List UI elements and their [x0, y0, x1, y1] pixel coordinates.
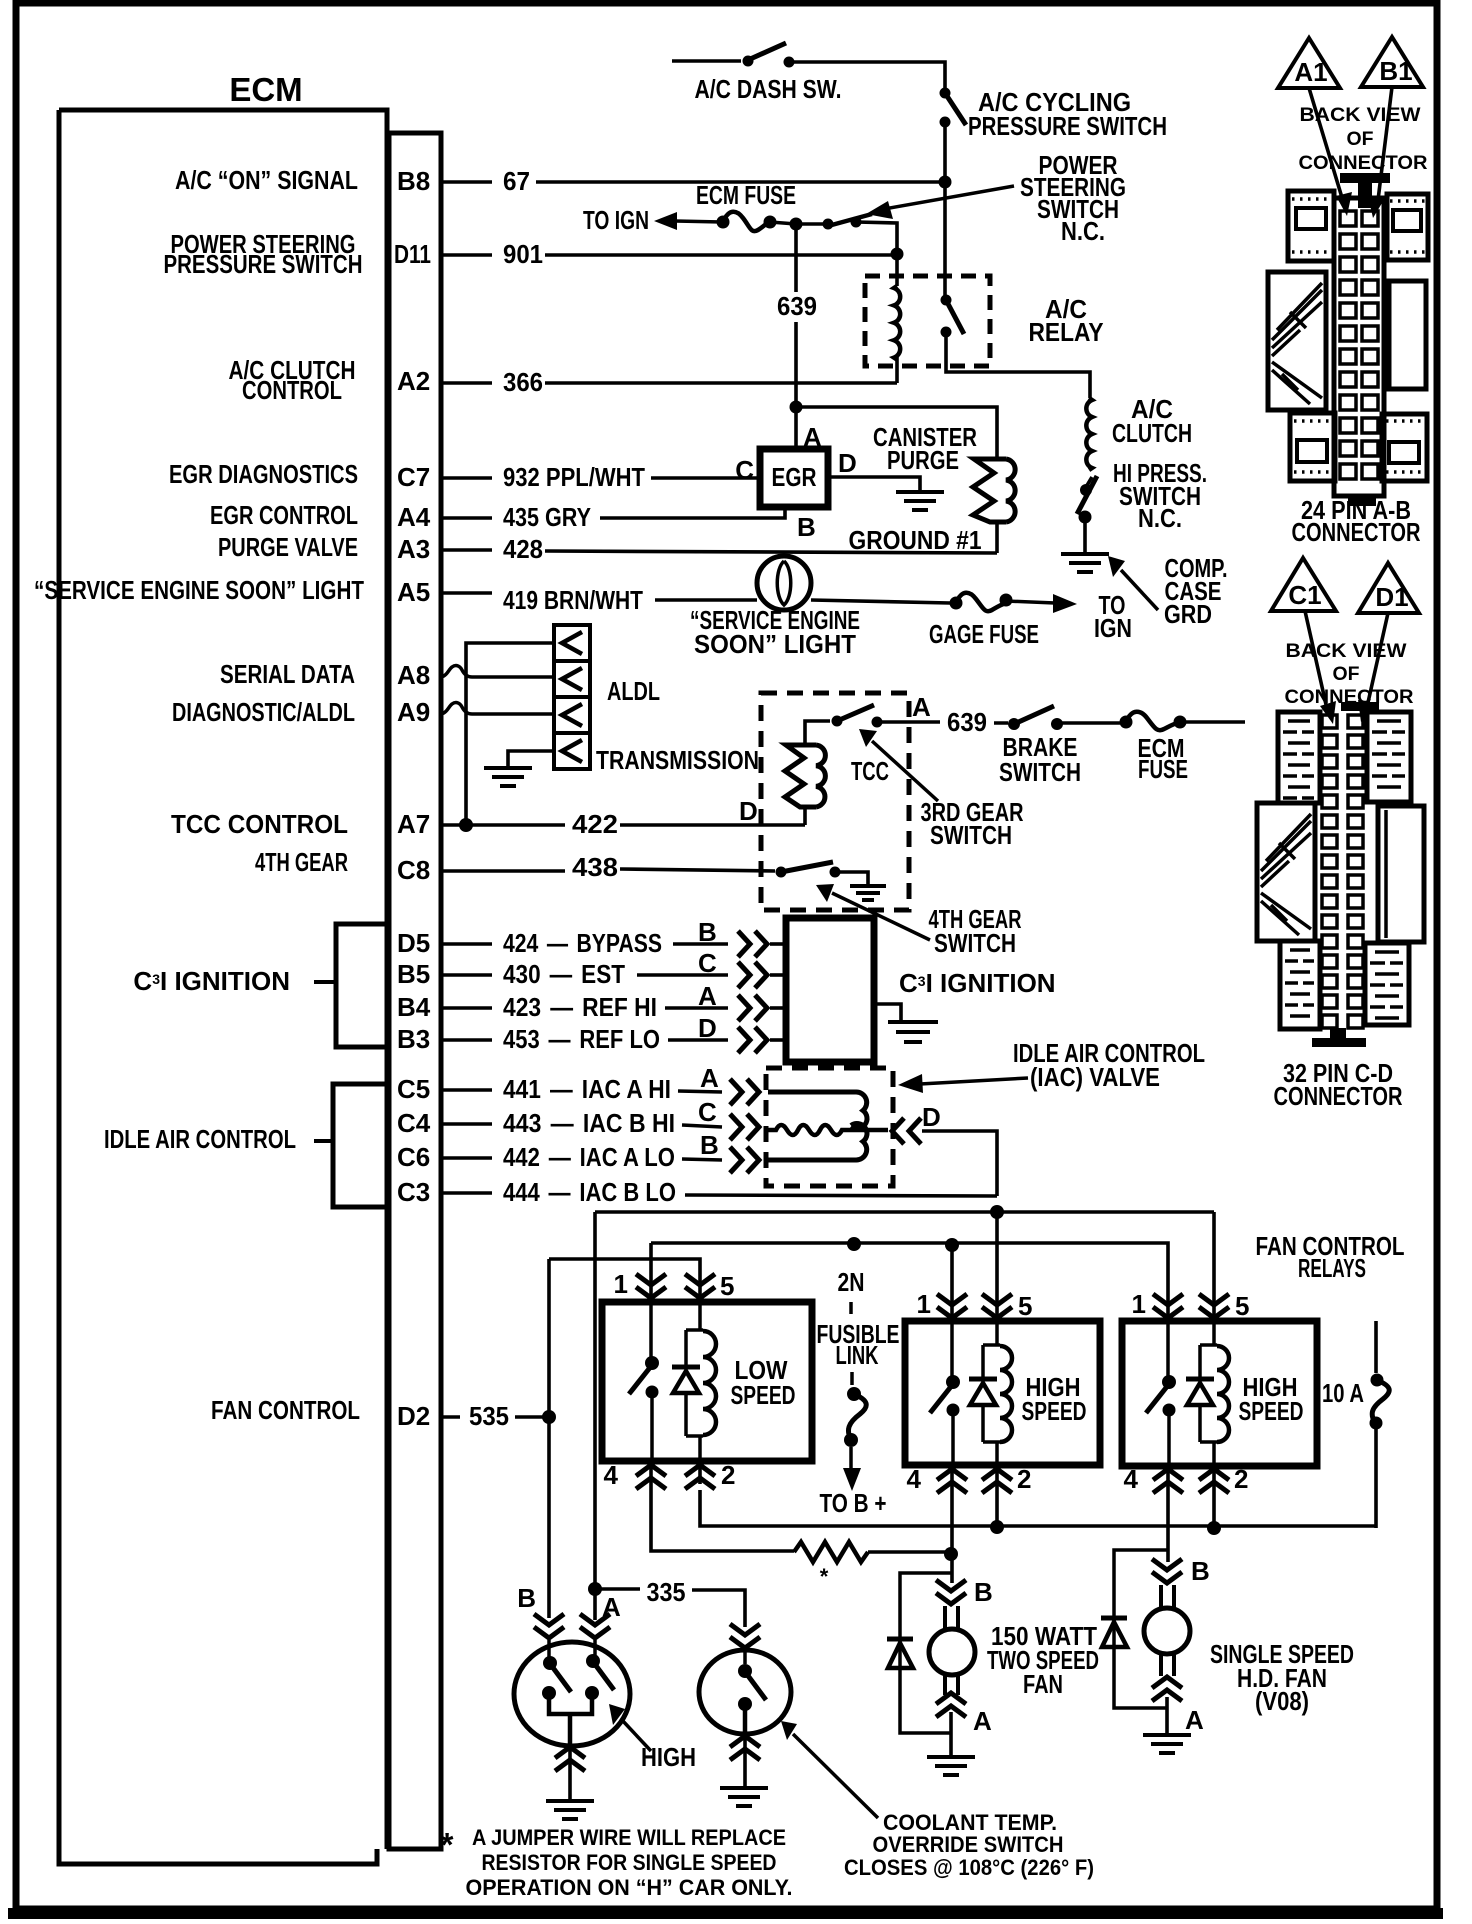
relay2 coil feed [983, 1321, 1000, 1465]
label BACK VIEW OF CONNECTOR (32 pin) [1285, 641, 1414, 708]
label A/C RELAY [1029, 294, 1104, 347]
svg-text:FAN: FAN [1023, 1669, 1063, 1699]
left coolant switch contacts A [585, 1640, 614, 1700]
junction relay2 pin2 / bus [990, 1520, 1004, 1534]
label PURGE VALVE [218, 532, 358, 562]
24 pin connector bottom tab [1348, 496, 1376, 506]
C3I ignition box [786, 918, 874, 1062]
left coolant override switch body [514, 1642, 630, 1746]
wire bus down to coolant switch A [593, 1212, 597, 1589]
24 pin connector body outline [1334, 198, 1384, 496]
24 pin connector bottom right block [1382, 414, 1427, 481]
svg-text:1: 1 [917, 1289, 931, 1319]
TCC solenoid coil [785, 745, 825, 807]
C3I pin A label [698, 981, 717, 1011]
svg-text:5: 5 [720, 1271, 734, 1301]
relay2 coil [1000, 1346, 1012, 1442]
arrow comp case grd to ground [1108, 556, 1158, 610]
svg-text:67: 67 [503, 166, 530, 196]
junction fusible link / bus [847, 1237, 861, 1251]
svg-text:B: B [698, 917, 717, 947]
arrow C1 to pin C1 [1305, 611, 1336, 724]
4th gear switch [776, 862, 841, 878]
wire 901 value label [503, 239, 543, 269]
32 pin connector pin cells column D [1348, 715, 1363, 1028]
svg-text:*: * [441, 1826, 454, 1863]
A/C dash switch [743, 43, 795, 68]
IAC winding B hairpin [768, 1124, 867, 1161]
brake switch [1008, 706, 1063, 730]
24 pin connector top right block [1387, 194, 1428, 260]
A/C dash switch wire [672, 59, 741, 63]
relay3 HIGH SPEED box [1122, 1321, 1317, 1466]
pin A9 [397, 697, 430, 727]
IAC center tap wavy wire [768, 1125, 888, 1135]
EGR ground symbol [896, 492, 944, 510]
relay3 pin 1 label [1132, 1289, 1146, 1319]
right fan feed from relay3 pin4 [1166, 1490, 1170, 1562]
label 10 A [1322, 1378, 1364, 1408]
svg-text:D5: D5 [397, 928, 430, 958]
svg-text:B8: B8 [397, 166, 430, 196]
wire 430 est [441, 973, 728, 977]
wire right coolant switch to ground [743, 1762, 747, 1786]
svg-text:443 — IAC B HI: 443 — IAC B HI [503, 1108, 675, 1138]
wire IAC D to fan net [922, 1131, 997, 1196]
A/C relay switch [941, 295, 965, 338]
label ECM FUSE [696, 180, 796, 210]
label HI PRESS. SWITCH N.C. [1113, 458, 1207, 533]
label BRAKE SWITCH [999, 732, 1081, 787]
svg-text:ALDL: ALDL [607, 676, 660, 706]
pin C4 [397, 1108, 431, 1138]
ECM title [229, 71, 302, 108]
relay1 pin 5 label [720, 1271, 734, 1301]
svg-text:438: 438 [572, 852, 618, 882]
wire 428 A3 to purge [441, 550, 997, 553]
left coolant switch B chevrons [534, 1614, 564, 1638]
svg-text:(IAC) VALVE: (IAC) VALVE [1030, 1062, 1160, 1092]
node A label (TCC) [912, 692, 931, 722]
relay2 switch [930, 1321, 960, 1465]
compressor case ground symbol [1061, 554, 1109, 572]
wire 435 GRY value label [503, 502, 591, 532]
wire 435 A4 to EGR B [441, 507, 785, 518]
label 32 PIN C-D CONNECTOR [1274, 1058, 1403, 1111]
svg-text:A: A [973, 1706, 992, 1736]
pin A3 [397, 534, 430, 564]
svg-text:LINK: LINK [836, 1340, 879, 1370]
label TO B+ [820, 1488, 887, 1518]
junction 639 to EGR A [790, 401, 803, 414]
wire 419 BRN/WHT value label [503, 585, 643, 615]
svg-text:901: 901 [503, 239, 543, 269]
relay1 pin 4 chevrons [636, 1461, 666, 1489]
relay1 LOW SPEED box [602, 1302, 812, 1461]
wire 419 A5 to light [441, 593, 757, 600]
pin C8 [397, 855, 430, 885]
svg-text:TO IGN: TO IGN [583, 205, 649, 235]
left fan diode [887, 1639, 913, 1668]
relay2 pin 4 label [907, 1464, 922, 1494]
svg-text:SWITCH: SWITCH [999, 757, 1081, 787]
32 pin connector left latch block [1257, 803, 1315, 941]
relay2 pin 4 chevrons [937, 1465, 967, 1493]
svg-text:639: 639 [777, 291, 817, 321]
wire fan feed bus y1212 [595, 1210, 1214, 1214]
wire junction down to A/C relay switch [943, 182, 947, 296]
pin A8 [397, 660, 430, 690]
svg-text:IGN: IGN [1094, 613, 1132, 643]
svg-text:A: A [912, 692, 931, 722]
svg-text:PRESSURE SWITCH: PRESSURE SWITCH [968, 111, 1167, 141]
svg-text:OF: OF [1333, 664, 1360, 685]
svg-text:428: 428 [503, 534, 543, 564]
relay3 pin 1 chevrons [1153, 1294, 1183, 1321]
wire left fan to ground [949, 1712, 953, 1756]
svg-text:D2: D2 [397, 1401, 430, 1431]
svg-text:A2: A2 [397, 366, 430, 396]
wire 422 A7 to TCC [441, 823, 805, 827]
svg-text:A: A [700, 1063, 719, 1093]
left fan motor [929, 1606, 975, 1695]
svg-text:C3: C3 [397, 1177, 430, 1207]
svg-text:C: C [698, 1097, 717, 1127]
svg-text:DIAGNOSTIC/ALDL: DIAGNOSTIC/ALDL [172, 697, 355, 727]
svg-text:C7: C7 [397, 462, 430, 492]
relay3 pin 4 label [1124, 1464, 1139, 1494]
relay2 pin 5 label [1018, 1291, 1032, 1321]
label C3I IGNITION [133, 966, 290, 996]
label POWER STEERING PRESSURE SWITCH [164, 229, 363, 279]
A/C cycling pressure switch [940, 88, 967, 128]
wire left coolant switch to ground [568, 1772, 572, 1799]
right fan motor [1144, 1585, 1190, 1676]
arrow HIGH to switch [609, 1704, 651, 1751]
EGR pin B label [797, 512, 816, 542]
svg-text:PURGE VALVE: PURGE VALVE [218, 532, 358, 562]
svg-text:ECM: ECM [229, 71, 302, 108]
C3I chevron C [738, 962, 786, 988]
left coolant switch common bar [549, 1698, 592, 1748]
wire purge solenoid bottom to 428 [995, 522, 999, 553]
wire EGR D to ground [828, 477, 920, 490]
label "SERVICE ENGINE SOON" LIGHT [690, 605, 860, 659]
svg-text:GROUND #1: GROUND #1 [849, 525, 982, 555]
32 pin connector triangle D1 [1358, 563, 1419, 613]
svg-text:FAN CONTROL: FAN CONTROL [211, 1395, 360, 1425]
svg-text:N.C.: N.C. [1061, 216, 1105, 246]
label TO IGN (right) [1094, 590, 1132, 643]
wire C3I box to ground [874, 1004, 901, 1020]
EGR box [760, 449, 828, 507]
svg-text:A1: A1 [1294, 57, 1327, 87]
wire 453 ref lo [441, 1038, 728, 1042]
wire 444 iac b lo [441, 1193, 997, 1196]
wire relay 2 pin 5 drop [995, 1212, 999, 1300]
label TCC [851, 756, 889, 786]
wire 901 D11 to relay [441, 253, 897, 257]
junction IAC-D net / coolant switch A [588, 1582, 602, 1596]
label GROUND #1 [849, 525, 982, 555]
svg-text:4: 4 [604, 1460, 619, 1490]
pin C6 [397, 1142, 430, 1172]
right fan ground symbol [1143, 1735, 1191, 1753]
C3I chevron A [738, 995, 786, 1021]
arrow A1 to pin A1 [1309, 88, 1352, 216]
pin D2 [397, 1401, 430, 1431]
service engine soon light bulb [757, 556, 811, 610]
svg-text:SPEED: SPEED [1239, 1396, 1304, 1426]
canister purge solenoid [973, 459, 1015, 522]
pin B4 [397, 992, 431, 1022]
label IDLE AIR CONTROL (IAC) VALVE [1013, 1038, 1205, 1092]
relay1 pin 4 label [604, 1460, 619, 1490]
svg-text:422: 422 [572, 809, 618, 839]
wire TCC switch to 639 label [882, 722, 1008, 723]
svg-text:RELAY: RELAY [1029, 317, 1104, 347]
svg-text:A/C DASH SW.: A/C DASH SW. [695, 74, 842, 104]
10A fuse symbol [1370, 1374, 1390, 1430]
label POWER STEERING SWITCH N.C. [1020, 150, 1126, 246]
label SINGLE SPEED H.D. FAN (V08) [1210, 1639, 1354, 1716]
wire bus down to relay 3 pin 5 [1212, 1212, 1216, 1300]
label 24 PIN A-B CONNECTOR [1292, 495, 1421, 547]
svg-text:419 BRN/WHT: 419 BRN/WHT [503, 585, 643, 615]
right fan terminal A chevrons [1152, 1677, 1182, 1701]
svg-text:639: 639 [947, 707, 987, 737]
relay3 diode [1186, 1379, 1214, 1405]
svg-text:435 GRY: 435 GRY [503, 502, 591, 532]
svg-text:D11: D11 [394, 239, 431, 269]
relay1 diode [672, 1367, 700, 1393]
wire relay1 pin4 to resistor [651, 1484, 794, 1551]
svg-text:SPEED: SPEED [731, 1380, 796, 1410]
ECM fuse (brake line) [1120, 712, 1187, 731]
wire 932 PPL/WHT value label [503, 462, 645, 492]
wire 453 value label [503, 1024, 660, 1054]
left coolant switch ground symbol [546, 1801, 594, 1819]
svg-text:EGR DIAGNOSTICS: EGR DIAGNOSTICS [169, 459, 358, 489]
arrow B1 to pin B1 [1368, 87, 1392, 218]
svg-text:ECM FUSE: ECM FUSE [696, 180, 796, 210]
relay1 coil feed [686, 1302, 703, 1461]
relay1 pin 2 chevrons [685, 1461, 715, 1489]
svg-text:2: 2 [1017, 1464, 1031, 1494]
pin D5 [397, 928, 430, 958]
relay2 diode [969, 1379, 997, 1405]
wire 422 value label [572, 809, 618, 839]
arrow to B+ [843, 1447, 861, 1491]
relay1 switch [629, 1302, 659, 1461]
32 pin connector top right hatched block [1367, 712, 1411, 802]
wire relay1 pin1 drop [649, 1243, 653, 1280]
label 150 WATT TWO SPEED FAN [987, 1621, 1099, 1699]
relay2 pin 2 label [1017, 1464, 1031, 1494]
label A/C "ON" SIGNAL [175, 165, 358, 195]
relay2 pin 5 chevrons [982, 1294, 1012, 1321]
wire relay2 pin1 drop [950, 1245, 954, 1300]
2N dash [849, 1302, 853, 1314]
IAC pin A label [700, 1063, 719, 1093]
svg-text:B3: B3 [397, 1024, 430, 1054]
label A/C CLUTCH [1112, 394, 1192, 448]
left fan terminal A chevrons [936, 1693, 966, 1717]
label CANISTER PURGE [873, 422, 977, 475]
left fan terminal A label [973, 1706, 992, 1736]
pin D11 [394, 239, 431, 269]
wire dash switch to cycling switch [794, 62, 945, 88]
wire brake switch to ecm fuse [1057, 721, 1120, 725]
arrow D1 to pin D1 [1358, 613, 1388, 722]
right fan diode branch [1114, 1550, 1168, 1708]
svg-text:OPERATION ON “H” CAR ONLY.: OPERATION ON “H” CAR ONLY. [466, 1875, 793, 1900]
pin B3 [397, 1024, 430, 1054]
svg-text:A3: A3 [397, 534, 430, 564]
arrow to ign [654, 212, 722, 230]
label TRANSMISSION [596, 745, 759, 775]
wire 424 value label [503, 928, 662, 958]
svg-text:EGR CONTROL: EGR CONTROL [210, 500, 358, 530]
label EGR DIAGNOSTICS [169, 459, 358, 489]
svg-text:SWITCH: SWITCH [930, 820, 1012, 850]
relay1 pin 5 chevrons [685, 1274, 715, 1302]
svg-text:C: C [735, 455, 754, 485]
wire 444 value label [503, 1177, 676, 1207]
label A (coolant switch) [602, 1592, 621, 1622]
svg-text:C8: C8 [397, 855, 430, 885]
svg-text:TO B +: TO B + [820, 1488, 887, 1518]
label HIGH [641, 1742, 696, 1772]
svg-text:IDLE AIR CONTROL: IDLE AIR CONTROL [104, 1124, 296, 1154]
wire 422 up into coil [805, 721, 830, 825]
wire ecm fuse stub right [1180, 720, 1245, 724]
pin C3 [397, 1177, 430, 1207]
relay3 pin 2 chevrons [1199, 1466, 1229, 1493]
wire 443 iac b hi [441, 1124, 722, 1127]
svg-text:A5: A5 [397, 577, 430, 607]
wire 639 value label [777, 291, 817, 321]
32 pin connector right middle block [1378, 806, 1424, 942]
power steering switch N.C. contacts [796, 214, 872, 230]
resistor (fan speed) [794, 1542, 868, 1562]
relay2 HIGH SPEED box [905, 1321, 1100, 1465]
relay1 label LOW SPEED [731, 1355, 796, 1410]
relay3 pin 5 chevrons [1199, 1294, 1229, 1321]
wire 442 value label [503, 1142, 675, 1172]
A/C relay coil [894, 286, 900, 360]
svg-text:A: A [602, 1592, 621, 1622]
svg-text:D: D [838, 448, 857, 478]
asterisk by resistor [820, 1564, 829, 1589]
wire 535 down to coolant switch B [547, 1417, 551, 1618]
24 pin connector top tab [1340, 173, 1390, 208]
ALDL pin arrows [562, 632, 582, 762]
svg-text:OF: OF [1347, 129, 1374, 150]
pin B8 [397, 166, 430, 196]
24 pin connector pin cells column A [1340, 211, 1356, 479]
IAC pin C label [698, 1097, 717, 1127]
label A/C CYCLING PRESSURE SWITCH [968, 87, 1167, 141]
svg-text:5: 5 [1018, 1291, 1032, 1321]
wire 438 C8 to 4th gear switch [441, 869, 775, 871]
label TO IGN (left) [583, 205, 649, 235]
TCC pin D label [739, 796, 758, 826]
label COMP. CASE GRD [1164, 553, 1228, 629]
label FUSIBLE LINK [817, 1319, 900, 1370]
wire 441 value label [503, 1074, 671, 1104]
left fan terminal B label [974, 1577, 993, 1607]
relay2 label HIGH SPEED [1022, 1372, 1087, 1426]
svg-text:B: B [517, 1583, 536, 1613]
label EGR CONTROL [210, 500, 358, 530]
wire relay pin1 bus y1243 [651, 1243, 1168, 1300]
svg-text:(V08): (V08) [1255, 1686, 1309, 1716]
TCC 3rd gear switch [832, 705, 883, 728]
32 pin connector triangle C1 [1271, 558, 1336, 611]
svg-text:335: 335 [647, 1577, 686, 1607]
label IDLE AIR CONTROL [104, 1124, 296, 1154]
IAC pin D chevron [892, 1118, 921, 1144]
32 pin connector bottom right hatched block [1365, 943, 1409, 1025]
label TCC CONTROL [171, 809, 348, 839]
svg-text:C: C [698, 948, 717, 978]
pin A7 [397, 809, 430, 839]
arrow coolant override text to switch [781, 1721, 878, 1818]
svg-text:B: B [797, 512, 816, 542]
ECM pin column box [389, 133, 441, 1849]
svg-text:“SERVICE ENGINE SOON” LIGHT: “SERVICE ENGINE SOON” LIGHT [34, 575, 364, 605]
arrow power steering to N.C. contacts [866, 186, 1014, 219]
wire 423 ref hi [441, 1006, 728, 1010]
right fan terminal A label [1185, 1705, 1204, 1735]
24 pin connector left latch block [1268, 272, 1326, 410]
svg-text:CLOSES @ 108°C (226° F): CLOSES @ 108°C (226° F) [844, 1855, 1094, 1880]
label BACK VIEW OF CONNECTOR (24 pin) [1299, 105, 1428, 174]
ECM fuse symbol [717, 212, 777, 231]
svg-text:TCC CONTROL: TCC CONTROL [171, 809, 348, 839]
24 pin connector bottom left block [1290, 413, 1335, 481]
wire relay3 pin2 drop [1212, 1490, 1216, 1528]
wire resistor to fan B junction [868, 1550, 951, 1554]
wire 424 bypass [441, 942, 728, 946]
relay3 pin 4 chevrons [1153, 1466, 1183, 1493]
wire N.C. switch to relay coil top [856, 222, 897, 253]
svg-text:D: D [739, 796, 758, 826]
label GAGE FUSE [929, 619, 1039, 649]
wire junction to canister purge [796, 407, 997, 457]
svg-text:EGR: EGR [772, 462, 817, 492]
pin C5 [397, 1074, 430, 1104]
label C3I IGNITION (right) [899, 968, 1056, 998]
idle air control bracket box [314, 1084, 387, 1207]
svg-text:FUSE: FUSE [1138, 754, 1188, 784]
wire 67 B8 to junction [441, 180, 945, 184]
svg-text:A8: A8 [397, 660, 430, 690]
junction 535 [542, 1410, 556, 1424]
note asterisk [441, 1826, 454, 1863]
wire 932 C7 to EGR C [441, 476, 760, 480]
svg-text:BACK VIEW: BACK VIEW [1286, 641, 1407, 662]
label 3RD GEAR SWITCH [921, 797, 1024, 850]
svg-text:1: 1 [614, 1269, 628, 1299]
pin C7 [397, 462, 430, 492]
wire relay switch to A/C clutch coil [946, 332, 1090, 398]
relay2 pin 1 chevrons [937, 1294, 967, 1321]
svg-text:CLUTCH: CLUTCH [1112, 418, 1192, 448]
arrow to IAC box [898, 1074, 1028, 1093]
label 4TH GEAR [255, 847, 348, 877]
